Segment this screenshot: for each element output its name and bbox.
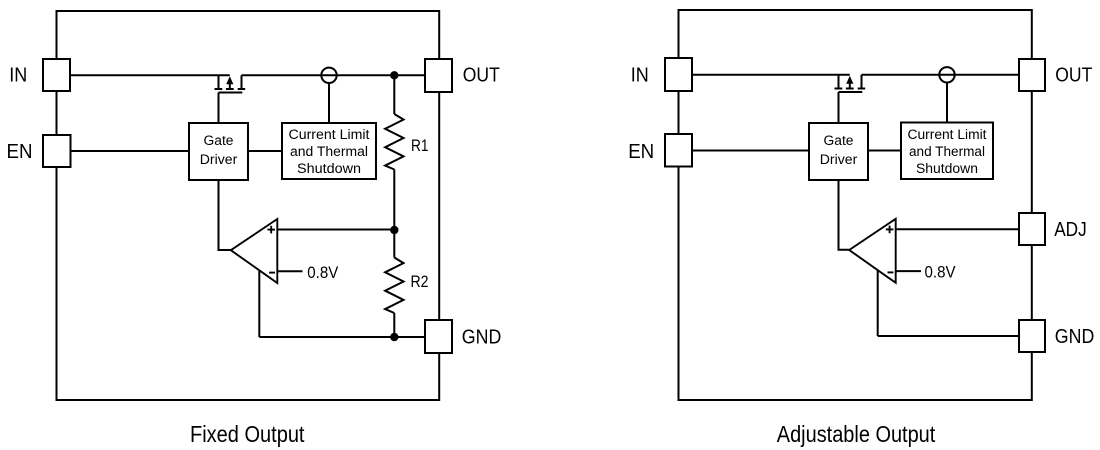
wire op-amp - input to 0.8V reference <box>277 270 302 272</box>
svg-text:OUT: OUT <box>1055 63 1092 86</box>
op-amp error amplifier <box>231 219 277 283</box>
pin EN (fixed) <box>43 135 71 167</box>
wire sense circle to current-limit block (adj) <box>946 83 948 123</box>
pin EN (adj) <box>665 134 692 167</box>
wire gate to gate driver (adj) <box>838 92 840 123</box>
wire IN to MOSFET source (top rail, adj) <box>692 74 850 76</box>
svg-text:Current Limit: Current Limit <box>289 127 370 142</box>
current limit and thermal shutdown block (adj) <box>901 123 993 180</box>
wire EN to gate driver <box>71 150 190 152</box>
current limit and thermal shutdown block <box>282 123 376 179</box>
svg-text:Driver: Driver <box>200 152 238 167</box>
transistor Q1 source riser <box>218 75 220 89</box>
current sense circle <box>321 68 336 83</box>
wire op-amp reference return (adj) <box>877 271 879 336</box>
svg-text:EN: EN <box>7 140 33 163</box>
junction node: top rail / R1 <box>390 71 398 79</box>
pin GND (adj) <box>1019 320 1045 352</box>
wire IN to MOSFET source (top rail) <box>70 74 230 76</box>
wire MOSFET drain to OUT (top rail, adj) <box>862 74 1020 76</box>
transistor Q1 body contact bar <box>226 88 234 90</box>
wire top rail to R1 <box>393 75 395 114</box>
IC boundary box U2 <box>679 10 1032 400</box>
wire gate driver to current limit block <box>248 150 282 152</box>
wire sense circle to current-limit block <box>328 83 330 123</box>
wire feedback node to R2 <box>393 230 395 258</box>
transistor Q2 drain contact bar <box>858 88 866 90</box>
gate driver block (adj) <box>809 123 868 180</box>
transistor Q1 body arrow shaft <box>229 83 231 90</box>
transistor Q2 body arrow shaft <box>849 82 851 89</box>
svg-text:Adjustable Output: Adjustable Output <box>777 421 936 447</box>
pin OUT (fixed) <box>425 59 452 92</box>
wire op-amp - input to 0.8V reference (adj) <box>896 270 921 272</box>
svg-text:and Thermal: and Thermal <box>290 144 368 159</box>
junction node: feedback divider / + input <box>390 226 398 234</box>
svg-text:Driver: Driver <box>820 152 858 167</box>
op-amp error amplifier (adj) <box>849 219 896 283</box>
wire op-amp reference return <box>258 271 260 337</box>
wire op-amp output to gate driver <box>219 180 231 250</box>
transistor Q2 body contact bar <box>846 88 854 90</box>
transistor Q2 source contact bar <box>835 88 843 90</box>
svg-text:Current Limit: Current Limit <box>908 127 987 142</box>
pin IN (adj) <box>665 58 692 91</box>
svg-text:and Thermal: and Thermal <box>909 144 985 159</box>
pin OUT (adj) <box>1019 59 1045 91</box>
svg-text:0.8V: 0.8V <box>307 263 339 282</box>
wire op-amp + input to ADJ pin <box>896 228 1019 230</box>
current sense circle (adj) <box>939 67 954 82</box>
svg-text:R2: R2 <box>411 273 429 291</box>
transistor Q1 gate bar <box>219 92 243 94</box>
resistor R2 <box>385 258 403 314</box>
svg-text:GND: GND <box>1055 325 1095 348</box>
wire ground rail to GND pin <box>259 336 425 338</box>
svg-text:Gate: Gate <box>204 133 234 148</box>
junction node: R2 / ground rail <box>390 333 398 341</box>
svg-text:IN: IN <box>9 63 27 86</box>
op-amp + input symbol (adj) <box>886 226 894 234</box>
wire R1 to feedback node <box>393 170 395 231</box>
transistor Q1 source contact bar <box>215 88 223 90</box>
gate driver block <box>189 123 248 180</box>
svg-text:Shutdown: Shutdown <box>297 161 361 176</box>
resistor R1 <box>385 114 403 170</box>
pin IN (fixed) <box>43 59 70 91</box>
transistor Q1 drain riser <box>241 75 243 89</box>
wire EN to gate driver (adj) <box>692 150 809 152</box>
svg-text:OUT: OUT <box>463 63 500 86</box>
wire gate to gate driver <box>218 93 220 124</box>
svg-text:GND: GND <box>462 325 502 348</box>
wire feedback node to op-amp + input <box>277 229 394 231</box>
op-amp - input symbol <box>269 272 275 274</box>
transistor Q2 gate bar <box>839 91 863 93</box>
svg-text:Gate: Gate <box>824 133 854 148</box>
pin ADJ <box>1019 213 1045 245</box>
svg-text:EN: EN <box>628 140 654 163</box>
wire op-amp output to gate driver (adj) <box>839 180 850 250</box>
transistor Q2 source riser <box>838 75 840 89</box>
svg-text:Shutdown: Shutdown <box>916 161 978 176</box>
svg-text:IN: IN <box>631 63 649 86</box>
svg-text:ADJ: ADJ <box>1054 218 1087 241</box>
wire gate driver to current limit block (adj) <box>868 150 901 152</box>
IC boundary box U1 <box>57 11 440 400</box>
wire MOSFET drain to OUT (top rail) <box>242 74 426 76</box>
transistor Q1 body arrow head <box>226 76 233 84</box>
transistor Q2 body arrow head <box>846 76 853 84</box>
svg-text:0.8V: 0.8V <box>925 263 957 282</box>
pin GND (fixed) <box>425 320 452 353</box>
op-amp - input symbol (adj) <box>888 271 894 273</box>
transistor Q2 drain riser <box>861 75 863 89</box>
op-amp + input symbol <box>267 226 275 234</box>
svg-text:R1: R1 <box>411 137 429 155</box>
transistor Q1 drain contact bar <box>238 88 246 90</box>
wire R2 to ground rail <box>393 313 395 337</box>
svg-text:Fixed Output: Fixed Output <box>190 421 305 447</box>
wire ground rail to GND pin (adj) <box>878 335 1019 337</box>
